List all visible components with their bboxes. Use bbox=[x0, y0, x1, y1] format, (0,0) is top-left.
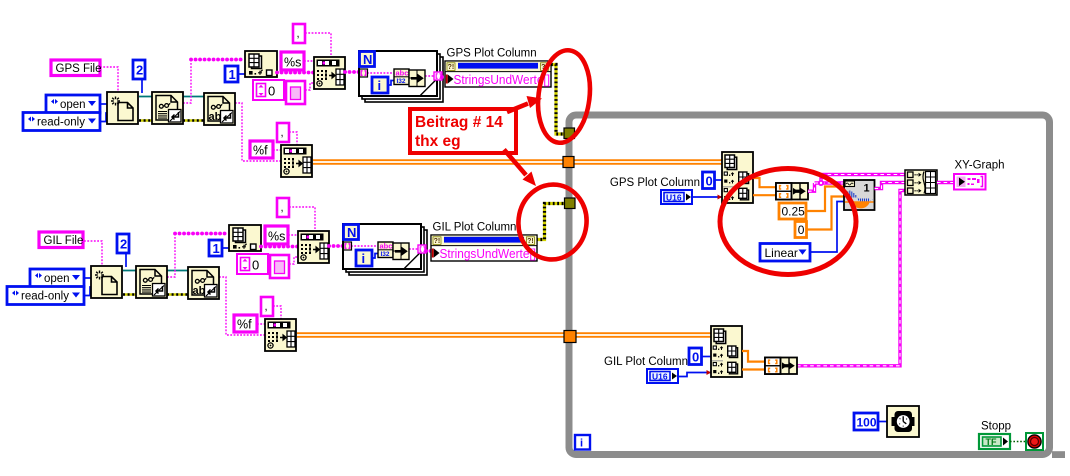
in-loop GPS: plot column terminal group bbox=[610, 152, 808, 204]
wire: GIL cluster up to build bbox=[797, 191, 905, 366]
wire: 0.25 to interpolate bbox=[806, 187, 844, 212]
wire: row outputs orange bbox=[742, 351, 765, 370]
node: bundle x-y bbox=[765, 358, 797, 375]
svg-text:Stopp: Stopp bbox=[981, 421, 1011, 433]
constant: 1 bbox=[225, 66, 238, 82]
svg-text:0: 0 bbox=[798, 223, 805, 237]
svg-text:Beitrag # 14: Beitrag # 14 bbox=[415, 114, 503, 131]
wire: U16 to index bbox=[692, 196, 722, 198]
wire: 0 to interpolate bbox=[806, 197, 844, 230]
control label: GIL File bbox=[39, 232, 83, 248]
wire: read-only enum to icon bbox=[100, 113, 108, 122]
svg-text:GIL Plot Column: GIL Plot Column bbox=[433, 222, 517, 234]
wire: stop condition bbox=[1010, 441, 1027, 443]
svg-text:%s: %s bbox=[284, 56, 301, 70]
enum: read-only bbox=[23, 113, 100, 131]
svg-text:0: 0 bbox=[706, 174, 713, 189]
terminal: U16 bbox=[661, 190, 692, 204]
annotation: arrow to GPS wire bbox=[507, 96, 542, 112]
constant: 2 bbox=[133, 60, 145, 79]
wire: line string to spreadsheet-to-array bbox=[277, 71, 314, 75]
terminal: U16 bbox=[647, 369, 678, 383]
annotation: Beitrag text box bbox=[410, 109, 516, 153]
tunnel: GPS orange tunnel bbox=[563, 157, 574, 168]
wire: index 1 bbox=[238, 73, 245, 75]
node: build array (3 plots) bbox=[905, 170, 937, 195]
wire: GIL ring olive wire to loop tunnel bbox=[536, 204, 565, 240]
node: index array rows bbox=[711, 326, 742, 377]
node: index array bbox=[245, 51, 277, 77]
tunnel: GPS string-array olive tunnel bbox=[564, 128, 575, 139]
for loop: GIL line parser bbox=[343, 224, 427, 275]
constant: %s format bbox=[281, 52, 314, 70]
ring: GPS StringsUndWerte bbox=[445, 61, 551, 87]
wire: Linear to interpolate bbox=[810, 202, 844, 253]
wire: interpolate out to build bbox=[875, 183, 906, 189]
GPS file chain bbox=[23, 24, 359, 177]
wire: count 2 to read icon bbox=[141, 79, 143, 93]
node: bundle x-y bbox=[776, 183, 808, 200]
coercion dot bbox=[718, 195, 723, 200]
for loop: GPS line parser bbox=[359, 51, 443, 102]
constant: 0 bbox=[689, 348, 702, 365]
constant: Linear enum bbox=[760, 244, 810, 262]
terminal: loop iteration i bbox=[575, 435, 590, 450]
svg-text:GPS Plot Column: GPS Plot Column bbox=[610, 177, 700, 189]
svg-text:i: i bbox=[580, 438, 583, 450]
tunnel: GIL orange tunnel bbox=[564, 331, 576, 343]
constant: comma delimiter bbox=[293, 24, 331, 57]
svg-text:GPS File: GPS File bbox=[56, 63, 102, 75]
svg-text:GPS Plot Column: GPS Plot Column bbox=[447, 48, 537, 60]
wire: GIL loop output to ring bbox=[426, 249, 432, 253]
while loop frame bbox=[569, 115, 1065, 458]
coercion dot bbox=[707, 370, 712, 375]
wire: GPS loop output to ring bbox=[442, 75, 446, 79]
ring: GIL StringsUndWerte bbox=[431, 235, 537, 261]
wire: error cluster bbox=[139, 119, 204, 122]
wire: build to XY graph bbox=[937, 181, 954, 184]
wire: 0 to index bbox=[702, 356, 711, 358]
annotation: red ellipse around interpolate params bbox=[720, 169, 856, 275]
svg-text:1: 1 bbox=[229, 67, 236, 82]
wire: string array to for loop bbox=[345, 70, 359, 74]
control label: GPS File bbox=[51, 60, 102, 76]
svg-text:read-only: read-only bbox=[37, 117, 85, 129]
terminal: XY-Graph bbox=[954, 174, 986, 190]
svg-text:100: 100 bbox=[857, 416, 877, 430]
node: spreadsheet string to array (%s) bbox=[314, 57, 345, 89]
node: read characters ab bbox=[204, 93, 235, 125]
svg-text:open: open bbox=[60, 99, 86, 111]
node: open/create file bbox=[107, 92, 138, 124]
wire: 0 to index bbox=[714, 179, 722, 181]
in-loop GPS: cluster wire bundle to interpolate and build bbox=[808, 175, 905, 192]
svg-text:0: 0 bbox=[268, 84, 275, 99]
node: interpolate/resample bbox=[844, 180, 875, 210]
svg-text:1: 1 bbox=[864, 183, 870, 195]
wire: GPS 2D-array orange into loop bbox=[313, 159, 722, 165]
wire: refnum teal bbox=[139, 96, 204, 98]
svg-text:Linear: Linear bbox=[765, 246, 798, 260]
svg-text:thx eg: thx eg bbox=[415, 133, 461, 150]
node: read lines from file bbox=[152, 92, 183, 124]
wire: lines string up to index array bbox=[183, 60, 191, 104]
wire: U16 to index bbox=[678, 373, 711, 377]
svg-text:XY-Graph: XY-Graph bbox=[955, 160, 1005, 172]
in-loop GIL: plot column terminal group bbox=[604, 326, 797, 383]
node: wait ms bbox=[854, 406, 919, 437]
constant: empty string bbox=[286, 81, 314, 104]
node: spreadsheet string to array (%f) bbox=[281, 145, 312, 177]
svg-text:GIL File: GIL File bbox=[44, 235, 84, 247]
wire: GPS ring olive wire to loop tunnel bbox=[551, 65, 564, 135]
constant: 0.25 bbox=[779, 203, 806, 219]
node: index array rows bbox=[722, 152, 753, 203]
GIL file chain (same structure) bbox=[7, 198, 343, 351]
terminal: loop condition stop button bbox=[1026, 433, 1043, 450]
constant: 0 bbox=[703, 172, 715, 189]
annotation: red ellipse around GPS wire bbox=[533, 47, 595, 146]
wire: GIL 2D-array orange into loop bbox=[297, 332, 711, 338]
constant: %f format bbox=[250, 141, 281, 158]
wire: open enum to icon bbox=[100, 103, 108, 105]
enum: open bbox=[46, 95, 100, 113]
control: numeric spinner 0 bbox=[253, 80, 284, 100]
tunnel: GIL string-array olive tunnel bbox=[565, 198, 576, 209]
constant: 0 (interp) bbox=[795, 222, 807, 238]
svg-text:2: 2 bbox=[136, 63, 143, 78]
wire: row outputs orange bbox=[753, 178, 776, 195]
constant: comma delimiter 2 bbox=[277, 123, 297, 145]
svg-text:GIL Plot Column: GIL Plot Column bbox=[604, 356, 688, 368]
svg-text:TF: TF bbox=[986, 437, 997, 447]
wire: file path string bbox=[100, 67, 118, 92]
annotation: arrow to GIL wire bbox=[504, 150, 536, 187]
annotation: red ellipse around GIL wire bbox=[514, 181, 591, 264]
terminal: Stopp TF boolean bbox=[979, 434, 1010, 449]
svg-text:0: 0 bbox=[692, 350, 699, 365]
svg-text:%f: %f bbox=[253, 144, 268, 158]
svg-text:0.25: 0.25 bbox=[782, 205, 806, 219]
wire: string down to %f converter bbox=[235, 103, 281, 161]
